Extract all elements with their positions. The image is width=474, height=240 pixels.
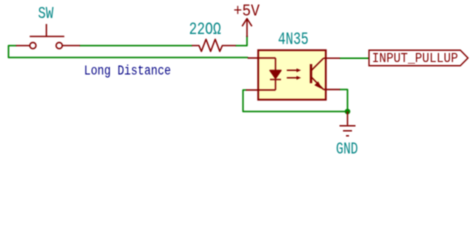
- svg-text:INPUT_PULLUP: INPUT_PULLUP: [372, 52, 458, 67]
- svg-text:GND: GND: [336, 140, 358, 158]
- svg-text:+5V: +5V: [233, 3, 260, 22]
- svg-text:SW: SW: [38, 5, 54, 24]
- svg-text:Long Distance: Long Distance: [84, 64, 171, 80]
- svg-text:22OΩ: 22OΩ: [189, 20, 221, 40]
- svg-text:4N35: 4N35: [278, 30, 309, 50]
